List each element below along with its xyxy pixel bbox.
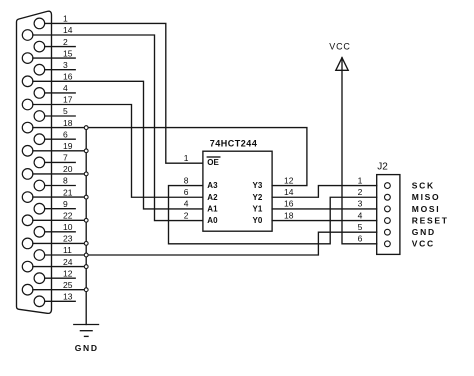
svg-text:17: 17 xyxy=(63,95,73,105)
wire Y0 of U1 to J2 pin4 RESET xyxy=(272,220,377,222)
svg-text:OE: OE xyxy=(207,158,219,167)
svg-text:J2: J2 xyxy=(377,162,388,173)
wire pin24 to gnd bus xyxy=(33,266,86,268)
svg-text:16: 16 xyxy=(63,72,73,82)
DB25 connector P1 outline xyxy=(17,11,52,313)
svg-text:2: 2 xyxy=(358,187,363,197)
J2 signal labels xyxy=(412,181,449,249)
wire pin6 stub xyxy=(45,138,75,140)
svg-text:8: 8 xyxy=(184,175,189,185)
svg-text:A2: A2 xyxy=(207,193,218,202)
svg-text:11: 11 xyxy=(63,245,72,255)
wire pin20 to gnd bus xyxy=(33,173,86,175)
svg-text:5: 5 xyxy=(358,222,363,232)
svg-text:22: 22 xyxy=(63,211,73,221)
svg-text:RESET: RESET xyxy=(412,216,449,226)
svg-text:15: 15 xyxy=(63,48,73,58)
svg-text:MOSI: MOSI xyxy=(412,204,441,214)
svg-text:9: 9 xyxy=(63,199,68,209)
DB25 pin circles column 1 (pins 1-13) xyxy=(34,18,45,307)
svg-text:1: 1 xyxy=(184,153,189,163)
gnd bus vertical wire xyxy=(85,128,87,325)
svg-text:Y1: Y1 xyxy=(253,204,263,213)
wire pin9 stub xyxy=(45,208,75,210)
svg-text:8: 8 xyxy=(63,176,68,186)
wire Y2 of U1 to J2 pin1 SCK xyxy=(272,186,377,198)
svg-text:19: 19 xyxy=(63,141,73,151)
wire VCC to J2 pin6 xyxy=(342,58,377,244)
svg-text:VCC: VCC xyxy=(329,41,350,51)
wire pin15 stub xyxy=(33,57,75,59)
IC U1 74HCT244 box xyxy=(203,151,272,231)
svg-text:4: 4 xyxy=(358,210,363,220)
svg-text:4: 4 xyxy=(63,83,68,93)
svg-text:MISO: MISO xyxy=(412,192,441,202)
svg-text:10: 10 xyxy=(63,222,73,232)
wire A3 of U1 to J2 pin2 MISO xyxy=(169,186,377,244)
svg-text:1: 1 xyxy=(63,14,68,24)
svg-text:GND: GND xyxy=(75,343,99,353)
wire pin4 stub xyxy=(45,92,75,94)
svg-text:GND: GND xyxy=(412,227,436,237)
wire pin2 stub xyxy=(45,46,75,48)
ground symbol xyxy=(74,324,99,326)
svg-text:16: 16 xyxy=(284,199,294,209)
svg-text:SCK: SCK xyxy=(412,181,435,191)
svg-text:7: 7 xyxy=(63,153,68,163)
wire pin25 to gnd bus xyxy=(33,289,86,291)
wire pin13 stub xyxy=(45,300,75,302)
wire pin5 stub xyxy=(45,115,75,117)
wire pin8 stub xyxy=(45,185,75,187)
svg-text:18: 18 xyxy=(284,210,294,220)
svg-text:VCC: VCC xyxy=(412,239,435,249)
wire pin17 to A2 of U1 xyxy=(33,105,203,198)
svg-text:Y0: Y0 xyxy=(253,216,263,225)
DB25 pin circles column 2 (pins 14-25) xyxy=(22,30,33,295)
J2 pin circles xyxy=(385,183,391,247)
wire pin7 stub xyxy=(45,161,75,163)
wire pin12 stub xyxy=(45,277,75,279)
svg-text:24: 24 xyxy=(63,257,73,267)
svg-text:3: 3 xyxy=(358,199,363,209)
svg-text:2: 2 xyxy=(184,210,189,220)
svg-text:5: 5 xyxy=(63,106,68,116)
svg-text:21: 21 xyxy=(63,187,73,197)
svg-text:13: 13 xyxy=(63,292,73,302)
wire pin22 to gnd bus xyxy=(33,219,86,221)
svg-text:23: 23 xyxy=(63,234,73,244)
U1 left pin numbers 1 8 6 4 2 xyxy=(184,153,189,220)
wire pin11 to J2 pin5 GND xyxy=(45,232,377,255)
svg-text:6: 6 xyxy=(63,129,68,139)
wire pin14 to A0 of U1 xyxy=(33,35,203,221)
wire pin3 stub xyxy=(45,69,75,71)
wire pin10 stub xyxy=(45,231,75,233)
svg-text:6: 6 xyxy=(358,234,363,244)
svg-text:2: 2 xyxy=(63,37,68,47)
connector J2 box xyxy=(377,175,400,255)
svg-text:4: 4 xyxy=(184,199,189,209)
DB25 pin number labels xyxy=(63,14,73,302)
svg-text:3: 3 xyxy=(63,60,68,70)
svg-text:14: 14 xyxy=(63,25,73,35)
svg-text:18: 18 xyxy=(63,118,73,128)
svg-text:74HCT244: 74HCT244 xyxy=(210,139,258,149)
wire pin19 to gnd bus xyxy=(33,150,86,152)
svg-text:6: 6 xyxy=(184,187,189,197)
svg-text:12: 12 xyxy=(284,175,294,185)
svg-text:A1: A1 xyxy=(207,204,218,213)
wire pin1 to OE of U1 xyxy=(45,23,203,163)
svg-text:14: 14 xyxy=(284,187,294,197)
svg-text:A0: A0 xyxy=(207,216,218,225)
svg-text:25: 25 xyxy=(63,280,73,290)
J2 pin numbers 1-6 xyxy=(358,175,363,243)
svg-text:20: 20 xyxy=(63,164,73,174)
svg-text:Y2: Y2 xyxy=(253,193,263,202)
wire Y1 of U1 to J2 pin3 MOSI xyxy=(272,208,377,210)
wire pin16 to A1 of U1 xyxy=(33,81,203,209)
wire pin21 to gnd bus xyxy=(33,196,86,198)
svg-text:Y3: Y3 xyxy=(253,181,263,190)
wire pin23 to gnd bus xyxy=(33,242,86,244)
U1 right pin numbers 12 14 16 18 xyxy=(284,175,294,220)
wire pin18 to Y3 of U1 (gnd bus top) xyxy=(33,128,307,186)
junction dots on gnd bus xyxy=(84,126,88,292)
svg-text:1: 1 xyxy=(358,175,363,185)
svg-text:A3: A3 xyxy=(207,181,218,190)
VCC power symbol arrow xyxy=(336,58,348,71)
svg-text:12: 12 xyxy=(63,268,73,278)
OE overline xyxy=(207,156,220,158)
